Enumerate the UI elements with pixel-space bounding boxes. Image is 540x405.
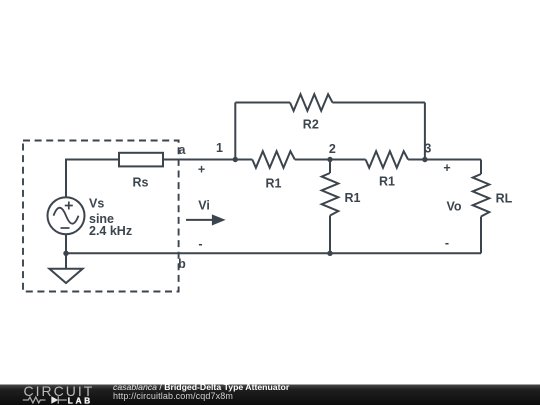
wire R1b to RL top corner (408, 159, 481, 161)
svg-text:R1: R1 (379, 174, 395, 188)
wire bottom rail (66, 252, 481, 254)
svg-text:+: + (198, 162, 205, 176)
wire node2 to R1 vertical (329, 160, 331, 174)
svg-text:1: 1 (216, 141, 223, 155)
minus mark inside Vs (61, 227, 70, 229)
wire R1 vertical bottom lead (329, 216, 331, 254)
node 1 junction dot (233, 157, 238, 162)
svg-text:R2: R2 (303, 117, 319, 131)
resistor R1 (shunt, vertical) (322, 173, 339, 215)
svg-text:2.4 kHz: 2.4 kHz (89, 224, 132, 238)
wire node1 vertical to R2 (234, 103, 236, 160)
svg-text:-: - (445, 236, 449, 250)
sine symbol inside Vs (54, 208, 79, 224)
Vi arrowhead (212, 214, 226, 225)
wire source bottom to ground (65, 234, 67, 269)
resistor Rs (119, 153, 163, 167)
resistor RL (473, 174, 490, 216)
svg-text:Vo: Vo (446, 199, 461, 213)
plus mark inside Vs (65, 202, 73, 210)
svg-text:-: - (198, 237, 202, 251)
svg-text:Vi: Vi (198, 198, 210, 212)
junction dot source bottom (63, 251, 68, 256)
ground (49, 269, 82, 283)
svg-text:3: 3 (424, 142, 431, 156)
wire Rs to node 1 (163, 159, 252, 161)
wire RL top lead (480, 160, 482, 175)
node 2 junction dot (327, 157, 332, 162)
svg-text:Rs: Rs (133, 175, 149, 189)
wire R2 to node 3 (424, 103, 426, 160)
resistor R1 (node1-node2) (252, 151, 294, 168)
wire source-top to Rs (66, 160, 119, 198)
svg-text:2: 2 (329, 142, 336, 156)
svg-text:RL: RL (496, 192, 513, 206)
footer logo wire with resistor and diode (23, 396, 67, 403)
svg-text:R1: R1 (345, 191, 361, 205)
voltage source Vs circle (48, 197, 85, 234)
footer logo diode triangle (51, 396, 58, 404)
dashed box (source network boundary) (23, 141, 179, 292)
svg-text:Vs: Vs (89, 196, 104, 210)
svg-text:LAB: LAB (68, 397, 93, 405)
junction dot shunt bottom (327, 251, 332, 256)
wire node1R1 to R1b (295, 159, 366, 161)
footer bar (0, 385, 540, 405)
resistor R2 (290, 94, 332, 111)
svg-text:b: b (178, 257, 186, 271)
svg-text:+: + (443, 161, 450, 175)
node 3 junction dot (422, 157, 427, 162)
resistor R1 (node2-node3) (366, 151, 408, 168)
wire RL bottom lead (480, 217, 482, 254)
wire R2 right (332, 102, 425, 104)
wire R2 left (235, 102, 290, 104)
svg-text:a: a (179, 143, 187, 157)
svg-text:R1: R1 (266, 176, 282, 190)
Vi arrow line (186, 219, 214, 221)
svg-text:http://circuitlab.com/cqd7x8m: http://circuitlab.com/cqd7x8m (113, 391, 233, 401)
